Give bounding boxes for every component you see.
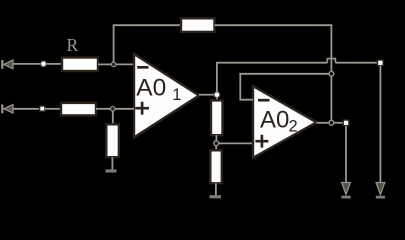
wire hop to terminal square	[335, 62, 377, 64]
arrow down right	[376, 183, 385, 198]
wire square to R2	[45, 108, 61, 110]
resistor RL (lower left)	[106, 124, 119, 157]
node circle A02 output	[329, 120, 334, 125]
svg-text:2: 2	[289, 118, 298, 136]
junction dot 2	[111, 107, 116, 112]
wire A02 output	[317, 122, 330, 124]
wire top feedback loop	[114, 25, 181, 62]
wire terminal 2 down	[345, 126, 347, 182]
wire rail down to A02 output	[330, 76, 332, 120]
node circle A01 output	[214, 92, 220, 98]
resistor RB (divider bottom)	[210, 150, 222, 183]
wire terminal down	[379, 66, 381, 182]
terminal square output 2	[343, 120, 349, 126]
wire RB to ground	[215, 183, 217, 195]
wire junction2 to A01 plus input	[115, 108, 134, 110]
minus sign U1	[137, 66, 148, 69]
svg-text:1: 1	[172, 86, 181, 104]
node circle divider mid	[214, 141, 219, 146]
wire junction1 to A01 inverting input	[116, 63, 134, 65]
ground bar right	[210, 195, 222, 198]
resistor RA (feedback divider top)	[211, 100, 223, 135]
junction dot 1	[111, 62, 116, 67]
resistor R3 (top)	[181, 18, 215, 32]
wire arrow2 to square node	[14, 108, 40, 110]
wire A02 inverting input routing	[240, 74, 329, 100]
wire R1 to junction 1	[98, 63, 114, 65]
op-amp U2 A02	[253, 86, 317, 158]
input terminal arrow 1	[2, 60, 13, 69]
wire A01 output	[199, 94, 214, 96]
ground bar left	[106, 169, 117, 172]
wire node to R1	[47, 63, 63, 65]
svg-text:R: R	[67, 35, 79, 55]
wire output node up and right to terminal	[217, 63, 328, 92]
wire output node down to RA	[216, 98, 218, 101]
wire R2 to junction 2	[96, 108, 113, 110]
wire junction2 down to RL	[112, 111, 114, 124]
svg-text:A0: A0	[136, 74, 166, 101]
node square (input 2)	[40, 106, 45, 111]
op-amp U1 A01	[134, 54, 199, 137]
wire hop over rail	[327, 59, 335, 63]
wire mid node down to RB	[215, 146, 217, 151]
plus sign U1	[135, 102, 149, 115]
node circle feedback junction	[329, 71, 334, 76]
wire A02 output node to terminal	[334, 122, 343, 124]
terminal square output 1	[378, 60, 384, 66]
wire RL to ground	[111, 157, 113, 169]
wire R3 to right rail	[215, 25, 332, 58]
svg-text:A0: A0	[260, 107, 289, 134]
input terminal arrow 2	[2, 104, 13, 113]
wire mid node to A02 plus input	[219, 142, 253, 144]
resistor R1	[62, 58, 98, 72]
wire rail continues below hop to node	[330, 58, 332, 71]
resistor R2	[61, 103, 96, 116]
arrow down left	[341, 183, 350, 198]
node circle (input 1)	[41, 61, 47, 67]
wire RA to mid node	[215, 135, 217, 141]
plus sign U2	[255, 135, 268, 148]
minus sign U2	[258, 99, 270, 102]
wire arrow1 to node	[14, 63, 41, 65]
